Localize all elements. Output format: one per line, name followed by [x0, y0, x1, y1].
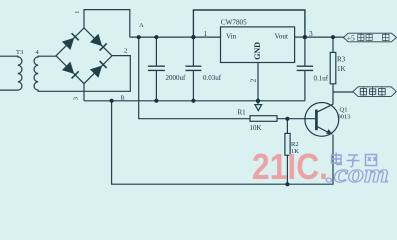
capacitor C 0.1uf leads — [304, 37, 306, 101]
svg-text:1: 1 — [75, 11, 81, 14]
svg-text:3: 3 — [309, 29, 313, 38]
svg-text:3: 3 — [73, 97, 80, 100]
watermark CJK zi — [347, 155, 360, 167]
transistor Q1 circle — [305, 103, 339, 137]
regulator U1 CW7805 body — [221, 27, 295, 63]
wire bridge top to node A corner — [84, 10, 130, 37]
junction R2 bottom — [285, 182, 289, 186]
regulator U1 CW7805 outer frame — [193, 10, 305, 37]
junction R3 top — [331, 35, 335, 39]
fake glyph CHU — [382, 33, 389, 41]
watermark CJK dian — [332, 153, 377, 167]
svg-text:R1: R1 — [238, 109, 247, 117]
junction 2000uf bottom — [154, 99, 158, 103]
transformer T3 secondary winding and wire to bridge / node 2 loop — [34, 56, 130, 92]
fake glyph DUAN — [379, 88, 386, 96]
svg-text:Vout: Vout — [275, 33, 288, 41]
transistor Q1 base bar — [315, 110, 318, 131]
capacitor C 2000uf leads — [155, 37, 157, 101]
svg-text:1: 1 — [204, 30, 208, 38]
wire R1 to base node — [277, 118, 316, 120]
svg-text:.com: .com — [326, 159, 389, 188]
junction R1/R2/base node — [285, 117, 289, 121]
junction 2000uf top — [154, 35, 158, 39]
junction 0.03uf top / pin 1 — [191, 35, 195, 39]
svg-text:+5: +5 — [347, 33, 355, 42]
svg-text:R3: R3 — [337, 56, 346, 64]
svg-text:A: A — [139, 22, 144, 29]
wire pin1 of regulator — [193, 36, 220, 38]
svg-text:2: 2 — [249, 79, 258, 83]
resistor R2 body and leads — [286, 119, 288, 185]
wire B ground rail — [84, 84, 305, 101]
resistor R3 body and leads — [332, 37, 334, 104]
svg-text:21IC.: 21IC. — [252, 146, 328, 187]
junction ground rail to bottom loop — [110, 99, 114, 103]
junction 0.03uf bottom — [191, 99, 195, 103]
svg-text:2000uf: 2000uf — [166, 74, 187, 82]
junction node A / R1 feed — [137, 35, 141, 39]
ground symbol — [255, 101, 262, 111]
junction pin 2 ground — [256, 99, 260, 103]
svg-text:B: B — [121, 96, 125, 102]
svg-text:10K: 10K — [250, 124, 262, 132]
svg-text:4: 4 — [36, 49, 40, 56]
capacitor C 0.03uf leads — [192, 37, 194, 101]
diode upper-right — [90, 34, 107, 51]
regulator pin2 ground wire — [257, 63, 259, 101]
diode lower-right — [90, 61, 107, 78]
capacitor C 2000uf plates — [148, 66, 165, 70]
wire node A rail — [130, 36, 194, 38]
resistor R1 body — [250, 116, 277, 122]
transistor Q1 collector diagonal — [316, 104, 333, 112]
svg-text:GND: GND — [253, 42, 262, 60]
wire output +5V rail — [305, 36, 344, 38]
svg-text:Q1: Q1 — [340, 107, 348, 114]
wire feed to R1 from node A — [139, 37, 250, 119]
fake glyph SHU — [366, 33, 372, 41]
transistor Q1 emitter diagonal with arrow — [316, 126, 331, 134]
wire collector junction to flag2 — [333, 91, 353, 93]
flag terminal +5V output — [343, 33, 396, 42]
watermark CJK wang — [366, 155, 377, 166]
svg-text:9013: 9013 — [338, 114, 351, 121]
svg-text:CW7805: CW7805 — [221, 18, 247, 26]
svg-text:1K: 1K — [337, 65, 346, 73]
svg-text:T3: T3 — [16, 49, 23, 56]
fake glyph FU — [358, 33, 364, 41]
bridge rectifier diamond wires — [56, 28, 112, 84]
flag terminal key-interrupt — [353, 87, 396, 97]
capacitor C 0.03uf plates — [185, 66, 201, 70]
svg-text:Vin: Vin — [226, 33, 237, 41]
svg-text:0.1uf: 0.1uf — [314, 75, 329, 83]
diode lower-left — [62, 62, 79, 79]
capacitor C 0.1uf plates — [297, 66, 313, 70]
junction 0.1uf top / pin 3 — [303, 35, 307, 39]
diode upper-left — [62, 33, 79, 50]
transformer T3 primary winding — [0, 56, 22, 90]
svg-text:0.03uf: 0.03uf — [203, 74, 222, 82]
flag2 text (CJK drawn as strokes) — [360, 87, 385, 96]
fake glyph ZHONG — [369, 87, 375, 96]
wire bottom loop — [112, 101, 333, 184]
wire pin3 of regulator — [295, 36, 305, 38]
svg-text:2: 2 — [124, 48, 127, 55]
fake glyph JIAN — [360, 88, 366, 96]
